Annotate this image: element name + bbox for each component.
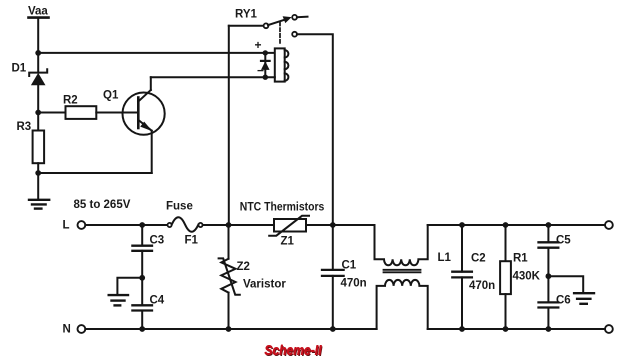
svg-text:Z2: Z2 — [237, 261, 250, 273]
terminal N — [78, 325, 86, 333]
node junction R3/emitter/ground — [35, 170, 41, 176]
wire Q1 emitter down — [151, 131, 153, 173]
wire Z1 to C1 node and transformer — [306, 224, 375, 226]
wire relay coil - rail — [151, 76, 275, 78]
wire emitter return — [38, 172, 152, 174]
node junction C2 top — [459, 222, 465, 228]
svg-text:Fuse: Fuse — [166, 201, 193, 213]
inductor L1 primary winding — [375, 225, 428, 265]
svg-text:R3: R3 — [17, 121, 32, 133]
node junction R1 bottom — [503, 326, 509, 332]
logo Scheme-II — [264, 342, 323, 359]
thermistor Z1 strike — [269, 216, 309, 236]
wire D1 anode to R2 node — [37, 85, 39, 113]
capacitor C2 — [452, 225, 472, 329]
node junction R1 top — [503, 222, 509, 228]
terminal output bottom — [605, 325, 613, 333]
wire Q1 collector up — [150, 77, 152, 90]
node junction C1/N — [330, 326, 336, 332]
svg-text:C6: C6 — [556, 295, 571, 307]
terminal L — [78, 221, 86, 229]
svg-text:C1: C1 — [342, 260, 357, 272]
relay RY1 actuator dashed link — [279, 22, 281, 45]
wire ground stem — [37, 173, 39, 199]
wire relay pivot to L node (long vertical) — [228, 26, 230, 225]
node junction coil - / diode — [263, 75, 268, 80]
svg-text:470n: 470n — [341, 278, 367, 290]
wire bottom rail right — [428, 328, 605, 330]
terminal output top — [605, 221, 613, 229]
node junction Vaa rail — [35, 50, 41, 56]
svg-text:F1: F1 — [185, 235, 199, 247]
relay RY1 coil bumps — [285, 50, 289, 81]
wire R2 to Q1 base — [96, 112, 138, 114]
inductor L1 core — [384, 270, 421, 273]
ground (middle) — [109, 295, 128, 305]
relay RY1 coil body — [275, 48, 285, 81]
ground (bottom left) — [29, 200, 49, 209]
wire right ground branch — [548, 276, 583, 292]
svg-text:Q1: Q1 — [103, 90, 119, 102]
svg-text:85 to 265V: 85 to 265V — [74, 199, 131, 211]
diode D1 zener triangle — [31, 73, 46, 85]
node junction C2 bottom — [459, 326, 465, 332]
wire top rail right — [428, 224, 605, 226]
wire common contact to C1 node — [297, 34, 333, 225]
relay RY1 pivot contact — [264, 23, 269, 28]
svg-text:C5: C5 — [556, 235, 571, 247]
relay RY1 switch arm — [268, 19, 287, 25]
svg-text:Varistor: Varistor — [243, 279, 286, 291]
svg-text:470n: 470n — [469, 280, 495, 292]
svg-text:C3: C3 — [150, 235, 165, 247]
svg-text:RY1: RY1 — [235, 9, 258, 21]
fuse F1 — [168, 217, 203, 232]
power rail Vaa bar — [29, 16, 49, 19]
wire mid ground branch — [117, 278, 142, 294]
capacitor C1 — [322, 225, 344, 329]
svg-text:R2: R2 — [63, 95, 78, 107]
inductor L1 secondary winding — [377, 280, 428, 329]
capacitor C6 — [539, 302, 559, 329]
wire top rail to relay coil + — [38, 52, 275, 54]
ground (right) — [574, 293, 594, 304]
node junction C4/N — [139, 326, 145, 332]
thermistor Z1 body — [274, 219, 306, 232]
resistor R1 — [500, 225, 511, 329]
svg-text:Vaa: Vaa — [28, 6, 48, 18]
svg-text:R1: R1 — [513, 253, 528, 265]
svg-text:NTC Thermistors: NTC Thermistors — [240, 202, 324, 214]
varistor Z2 — [219, 225, 240, 329]
wire NO contact stub — [297, 16, 308, 19]
wire Vaa stem — [37, 18, 39, 53]
node junction coil + / diode — [263, 50, 268, 55]
relay RY1 common contact — [292, 32, 297, 37]
svg-text:C2: C2 — [471, 253, 486, 265]
svg-text:D1: D1 — [12, 63, 27, 75]
node junction C3/C4/ground — [139, 275, 145, 281]
wire node to R3 — [37, 113, 39, 131]
relay RY1 arm arrowhead — [283, 16, 292, 23]
wire L to fuse — [85, 224, 167, 226]
transistor Q1 — [123, 90, 165, 135]
svg-text:N: N — [63, 324, 71, 336]
resistor R2 — [66, 106, 97, 119]
wire fuse to Z1 — [203, 224, 274, 226]
svg-text:−: − — [257, 63, 264, 77]
diode D1 zener cathode bar — [29, 69, 47, 76]
svg-text:L: L — [63, 220, 70, 232]
svg-text:430K: 430K — [513, 271, 541, 283]
wire relay pivot stub — [229, 25, 264, 27]
node junction L/relay/Z2 — [226, 222, 232, 228]
node junction C5 top — [546, 222, 552, 228]
capacitor C5 — [539, 225, 559, 302]
svg-text:Scheme-II: Scheme-II — [265, 342, 323, 358]
svg-text:Z1: Z1 — [281, 236, 295, 248]
node junction L/C3 — [139, 222, 145, 228]
svg-text:L1: L1 — [438, 252, 452, 264]
svg-text:C4: C4 — [150, 295, 165, 307]
wire R3 to emitter node — [37, 163, 39, 173]
wire N rail left — [85, 328, 376, 330]
node junction D1/R2/R3 — [35, 110, 41, 116]
node junction C5/C6/ground — [546, 273, 552, 279]
diode flyback across coil — [261, 53, 270, 77]
resistor R3 — [33, 131, 45, 164]
capacitor C4 — [132, 305, 152, 329]
node junction Z2/N — [226, 326, 232, 332]
capacitor C3 — [132, 225, 152, 305]
wire Vaa junction to D1 cathode — [37, 53, 39, 73]
wire node to R2 — [38, 112, 65, 114]
svg-text:+: + — [255, 38, 262, 52]
node junction Z1out/C1/relay — [330, 222, 336, 228]
node junction C6 bottom — [546, 326, 552, 332]
relay RY1 NO contact — [292, 15, 297, 20]
